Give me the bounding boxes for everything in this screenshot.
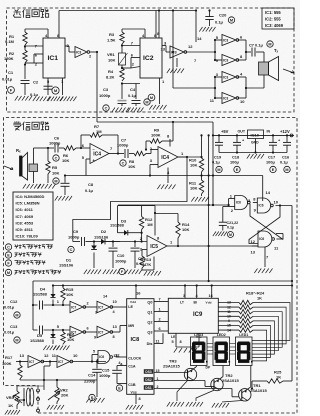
svg-text:10K: 10K — [66, 292, 73, 297]
svg-text:5: 5 — [93, 350, 95, 354]
svg-text:IC7: 4069: IC7: 4069 — [16, 214, 34, 219]
svg-text:M: M — [230, 19, 233, 23]
svg-text:0.01μ: 0.01μ — [2, 77, 13, 82]
svg-text:10: 10 — [73, 353, 78, 358]
svg-text:16: 16 — [136, 291, 141, 296]
svg-text:1.5K: 1.5K — [107, 38, 116, 43]
svg-text:13: 13 — [227, 301, 231, 305]
svg-text:20K: 20K — [61, 393, 68, 398]
svg-text:IC7: IC7 — [29, 360, 34, 364]
svg-text:150K: 150K — [4, 56, 14, 61]
svg-text:0.1μ: 0.1μ — [280, 160, 288, 165]
svg-text:IC4: IC4 — [161, 155, 169, 161]
svg-text:M: M — [145, 101, 148, 105]
svg-text:R3: R3 — [109, 32, 115, 37]
svg-text:C: C — [55, 157, 58, 161]
svg-text:10: 10 — [240, 99, 245, 104]
svg-text:9: 9 — [94, 336, 96, 340]
svg-text:IC4: NJM4560D: IC4: NJM4560D — [16, 194, 45, 199]
svg-text:C1B: C1B — [128, 383, 136, 387]
svg-text:C10: C10 — [117, 253, 125, 258]
svg-text:1000p: 1000p — [115, 259, 127, 264]
svg-text:0.01μ: 0.01μ — [4, 305, 15, 310]
svg-text:13: 13 — [251, 250, 256, 255]
svg-text:1S1588: 1S1588 — [30, 338, 45, 343]
svg-text:10: 10 — [113, 300, 117, 304]
svg-text:1S1588: 1S1588 — [110, 222, 125, 227]
svg-text:IC3: IC3 — [223, 58, 228, 62]
svg-text:1000p: 1000p — [68, 235, 80, 240]
svg-text:C2: C2 — [33, 80, 39, 85]
svg-text:C20: C20 — [219, 13, 227, 18]
svg-text:12: 12 — [44, 353, 49, 358]
svg-text:10K: 10K — [62, 158, 69, 163]
svg-text:V ss: V ss — [131, 390, 137, 394]
svg-text:R5: R5 — [52, 165, 58, 170]
svg-text:14: 14 — [197, 36, 202, 41]
svg-text:R17: R17 — [5, 355, 13, 360]
svg-text:C8: C8 — [88, 182, 94, 187]
svg-text:IC6: IC6 — [259, 237, 264, 241]
svg-text:2: 2 — [159, 318, 161, 322]
svg-text:1000p: 1000p — [99, 373, 111, 378]
svg-text:10K: 10K — [182, 227, 189, 232]
svg-text:100μ: 100μ — [266, 160, 275, 165]
svg-text:C7 0.1μ: C7 0.1μ — [249, 43, 263, 48]
svg-text:DS3: DS3 — [145, 370, 151, 374]
svg-text:+12V: +12V — [280, 129, 290, 134]
svg-text:C: C — [122, 162, 125, 166]
svg-text:13: 13 — [161, 47, 166, 52]
svg-text:12: 12 — [227, 305, 231, 309]
svg-text:IN: IN — [267, 130, 271, 134]
svg-text:3: 3 — [95, 311, 97, 315]
svg-text:LE: LE — [171, 335, 176, 339]
svg-text:14: 14 — [266, 190, 271, 195]
svg-text:IC7: IC7 — [71, 305, 76, 309]
svg-text:IC6: IC6 — [99, 355, 104, 359]
svg-text:2SA1015: 2SA1015 — [163, 364, 180, 369]
svg-text:13: 13 — [113, 325, 117, 329]
svg-text:R4: R4 — [108, 69, 114, 74]
svg-text:9: 9 — [228, 319, 230, 323]
svg-text:E: E — [7, 254, 10, 258]
svg-text:IC7: IC7 — [71, 330, 76, 334]
svg-text:M: M — [15, 314, 18, 318]
svg-text:1K: 1K — [257, 295, 262, 300]
svg-text:Tₓ: Tₓ — [274, 48, 279, 53]
svg-text:GND: GND — [251, 141, 259, 145]
svg-text:C1A: C1A — [128, 365, 136, 369]
svg-text:10K: 10K — [128, 164, 135, 169]
svg-text:11: 11 — [227, 310, 231, 314]
svg-text:14: 14 — [227, 328, 231, 332]
svg-text:C15: C15 — [102, 368, 110, 373]
svg-text:Rₓ: Rₓ — [16, 148, 21, 153]
svg-text:8.2K: 8.2K — [106, 75, 115, 80]
svg-text:15: 15 — [227, 324, 231, 328]
svg-text:0.01μ: 0.01μ — [4, 330, 15, 335]
svg-text:Dis: Dis — [147, 342, 153, 346]
svg-text:6: 6 — [87, 327, 89, 331]
svg-text:Q1: Q1 — [147, 311, 152, 315]
svg-text:10K: 10K — [108, 58, 115, 63]
svg-text:IC8: 4553: IC8: 4553 — [16, 220, 34, 225]
svg-text:0.1μ: 0.1μ — [212, 160, 220, 165]
svg-text:IC3: IC3 — [223, 38, 228, 42]
svg-text:E: E — [236, 168, 239, 172]
svg-text:47K: 47K — [144, 262, 151, 267]
svg-text:1M: 1M — [96, 129, 102, 134]
svg-text:IC7: IC7 — [98, 305, 103, 309]
svg-text:IC6: 4011: IC6: 4011 — [16, 207, 34, 212]
svg-text:IC5: IC5 — [150, 244, 158, 250]
svg-text:1000p: 1000p — [49, 141, 61, 146]
svg-text:C4: C4 — [130, 87, 136, 92]
svg-text:C12: C12 — [10, 299, 18, 304]
svg-text:5: 5 — [172, 340, 174, 344]
svg-text:2: 2 — [87, 302, 89, 306]
svg-text:M: M — [7, 271, 10, 275]
svg-text:2200p: 2200p — [84, 379, 96, 384]
svg-text:M: M — [268, 43, 271, 47]
svg-text:0.1μ: 0.1μ — [85, 188, 94, 193]
svg-text:C: C — [70, 248, 73, 252]
svg-text:IC1: 555: IC1: 555 — [265, 10, 281, 15]
svg-text:DS2: DS2 — [145, 378, 151, 382]
svg-text:IC3: IC3 — [223, 96, 228, 100]
svg-text:10: 10 — [274, 200, 279, 205]
svg-text:IC7: IC7 — [58, 360, 63, 364]
svg-text:IC8: IC8 — [131, 337, 140, 343]
svg-text:8: 8 — [113, 335, 115, 339]
svg-text:10: 10 — [227, 315, 231, 319]
svg-text:7: 7 — [159, 298, 161, 302]
svg-text:1000p: 1000p — [99, 93, 111, 98]
svg-text:OUT: OUT — [238, 130, 246, 134]
svg-text:LED3: LED3 — [194, 333, 203, 337]
svg-text:100K: 100K — [151, 133, 161, 138]
svg-text:IC3: 4069: IC3: 4069 — [265, 23, 284, 28]
svg-text:V ​dd: V ​dd — [130, 300, 136, 304]
svg-text:E: E — [272, 168, 275, 172]
svg-text:IC6: IC6 — [236, 201, 241, 205]
svg-text:C9: C9 — [73, 229, 79, 234]
svg-text:C3: C3 — [103, 87, 109, 92]
svg-text:IC3: IC3 — [76, 50, 81, 54]
svg-text:0.1μ: 0.1μ — [128, 93, 137, 98]
svg-text:9.1M: 9.1M — [5, 39, 15, 44]
svg-text:1SS106: 1SS106 — [59, 263, 74, 268]
svg-text:8: 8 — [180, 340, 182, 344]
svg-text:IC3: IC3 — [223, 75, 228, 79]
svg-text:M: M — [54, 180, 57, 184]
svg-text:10K: 10K — [52, 171, 59, 176]
svg-text:1SS106: 1SS106 — [94, 235, 109, 240]
svg-text:11: 11 — [156, 340, 160, 344]
svg-text:R18〜R24: R18〜R24 — [246, 291, 265, 296]
svg-text:1000p: 1000p — [117, 143, 129, 148]
svg-text:Q3: Q3 — [147, 331, 152, 335]
svg-text:1K: 1K — [8, 403, 13, 408]
svg-text:10K: 10K — [190, 163, 197, 168]
svg-text:100K: 100K — [2, 361, 12, 366]
svg-text:C13: C13 — [10, 324, 18, 329]
svg-text:CLOCK: CLOCK — [128, 357, 141, 361]
svg-text:8: 8 — [139, 397, 141, 401]
svg-text:12: 12 — [188, 44, 193, 49]
svg-text:IC9: 4511: IC9: 4511 — [16, 227, 34, 232]
svg-text:Q2: Q2 — [147, 321, 152, 325]
svg-text:M: M — [229, 233, 232, 237]
svg-text:VR1: VR1 — [107, 52, 116, 57]
svg-text:MR: MR — [128, 324, 134, 328]
svg-text:LE: LE — [128, 305, 133, 309]
svg-text:0.1μ: 0.1μ — [215, 20, 224, 25]
svg-text:LED2: LED2 — [217, 333, 226, 337]
svg-text:IC6: IC6 — [259, 204, 264, 208]
svg-text:1S1588: 1S1588 — [33, 292, 48, 297]
svg-text:C1: C1 — [8, 70, 14, 75]
svg-text:IC9: IC9 — [193, 312, 203, 318]
svg-text:13: 13 — [20, 353, 25, 358]
svg-text:IC2: IC2 — [143, 55, 154, 62]
svg-text:IC7: IC7 — [98, 330, 103, 334]
svg-text:IC2: 555: IC2: 555 — [265, 17, 281, 22]
svg-text:+5V: +5V — [221, 129, 229, 134]
svg-text:IC5: LM358N: IC5: LM358N — [16, 201, 40, 206]
svg-text:IC3: IC3 — [171, 50, 177, 54]
svg-text:M: M — [150, 96, 153, 100]
svg-text:IC10: 78L09: IC10: 78L09 — [16, 234, 39, 239]
svg-text:C: C — [7, 246, 10, 250]
svg-text:IC10: IC10 — [251, 132, 260, 137]
svg-text:2SA1015: 2SA1015 — [222, 378, 239, 383]
svg-text:100μ: 100μ — [230, 160, 239, 165]
svg-text:V dd: V dd — [206, 300, 212, 304]
svg-text:C14: C14 — [88, 373, 96, 378]
svg-text:6: 6 — [159, 327, 161, 331]
svg-text:Q0: Q0 — [147, 301, 152, 305]
svg-text:M: M — [15, 339, 18, 343]
svg-text:LED1: LED1 — [239, 333, 248, 337]
svg-text:10K: 10K — [190, 186, 197, 191]
svg-text:1: 1 — [159, 308, 161, 312]
svg-text:C: C — [105, 107, 108, 111]
svg-text:DP: DP — [206, 366, 211, 370]
svg-text:D2: D2 — [101, 229, 107, 234]
svg-text:0.1μ: 0.1μ — [227, 226, 234, 230]
svg-text:M: M — [217, 168, 220, 172]
svg-text:C21,22: C21,22 — [227, 221, 239, 225]
svg-text:0.1μ: 0.1μ — [30, 92, 39, 97]
svg-text:IC1: IC1 — [48, 55, 59, 62]
svg-text:Bi: Bi — [194, 300, 197, 304]
svg-text:12: 12 — [251, 239, 256, 244]
svg-text:E: E — [118, 387, 121, 391]
svg-text:M: M — [285, 168, 288, 172]
svg-text:DS1: DS1 — [145, 386, 151, 390]
svg-text:1M: 1M — [147, 222, 153, 227]
